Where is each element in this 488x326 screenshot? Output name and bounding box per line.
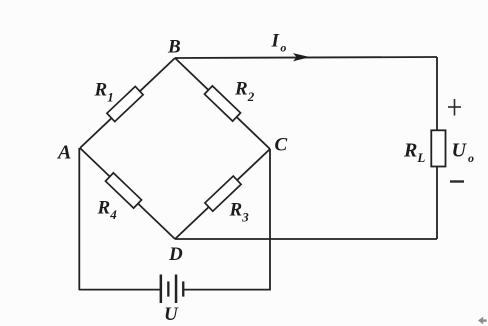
- resistor R2: [204, 86, 240, 121]
- resistor R1: [107, 86, 143, 121]
- svg-text:Uo: Uo: [452, 140, 474, 166]
- resistor R3: [205, 176, 241, 211]
- wire D to bottom-right corner: [175, 238, 437, 240]
- wire D-C: [175, 149, 270, 239]
- wire B-C: [175, 58, 270, 149]
- battery U: [160, 275, 185, 304]
- svg-text:RL: RL: [403, 140, 425, 166]
- svg-text:Io: Io: [271, 30, 287, 54]
- wire RL to bottom-right corner: [436, 166, 438, 239]
- wire B to top-right corner: [175, 57, 437, 58]
- svg-text:D: D: [168, 244, 183, 265]
- svg-text:B: B: [167, 37, 181, 58]
- wire A down to battery left: [78, 148, 80, 290]
- resistor RL: [431, 130, 445, 166]
- wire right vertical into RL: [436, 57, 438, 131]
- svg-text:C: C: [275, 135, 288, 156]
- svg-text:R4: R4: [97, 198, 118, 223]
- cursor arrow bottom-right: [478, 317, 487, 325]
- svg-text:A: A: [56, 142, 71, 164]
- plus sign: [448, 99, 461, 116]
- wire A-B: [80, 58, 175, 148]
- wire A-D: [80, 148, 175, 239]
- minus sign: [450, 180, 464, 182]
- wire bottom left to battery: [79, 289, 160, 291]
- wire C down to battery right: [269, 149, 271, 291]
- wire battery to bottom corner: [184, 289, 270, 291]
- svg-text:R1: R1: [94, 80, 114, 105]
- resistor R4: [105, 173, 141, 208]
- svg-text:R3: R3: [229, 200, 250, 225]
- current arrow Io: [293, 53, 310, 61]
- svg-text:R2: R2: [234, 79, 255, 105]
- svg-text:U: U: [164, 304, 179, 325]
